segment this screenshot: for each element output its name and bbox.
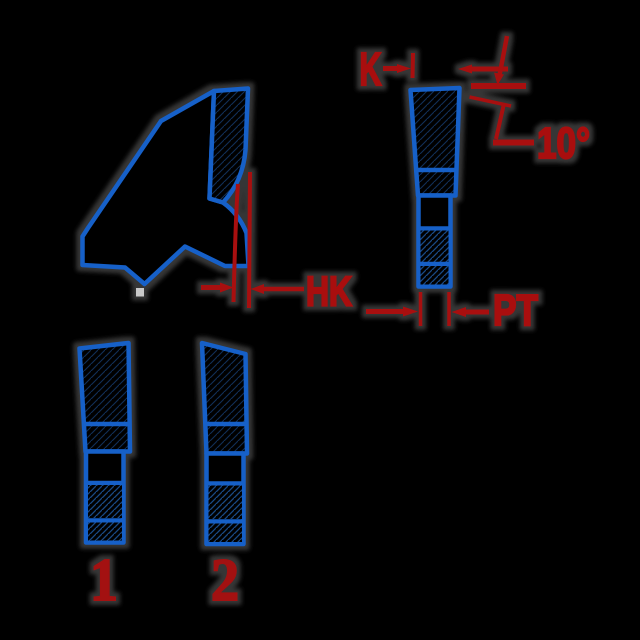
K dimension right arrow <box>458 65 472 74</box>
tooth 2 body <box>207 454 244 545</box>
tooth 1 front view: carbide tip <box>80 343 131 452</box>
front view blade body <box>419 196 451 287</box>
svg-text:2: 2 <box>211 547 239 613</box>
PT extension tick left <box>419 292 423 326</box>
side view carbide tip <box>210 89 249 203</box>
tooth 1 body divider 1 <box>86 481 124 486</box>
tooth 1 hatched box 1 <box>88 485 122 518</box>
red radial reference line B <box>249 172 250 308</box>
svg-text:10°: 10° <box>537 119 590 168</box>
side view tooth body outline <box>83 91 249 284</box>
white artifact square under gullet <box>136 288 144 297</box>
PT dimension left arrow <box>366 309 405 314</box>
tooth 2 body divider 1 <box>207 481 244 486</box>
PT dimension right arrow <box>452 307 467 317</box>
front view tip divider <box>414 168 456 173</box>
tooth 2 hatched box 1 <box>209 486 243 520</box>
tooth 2 front view: carbide tip <box>202 343 247 454</box>
HK dimension right arrow <box>251 284 265 294</box>
red radial reference line A <box>234 184 239 302</box>
HK dimension left arrow <box>201 285 227 290</box>
bevel leader line <box>499 36 507 78</box>
tooth 2 body divider 2 <box>207 519 244 524</box>
svg-text:1: 1 <box>90 547 118 613</box>
tooth 1 hatched box 2 <box>88 523 122 541</box>
body hatched box 1 <box>421 231 449 263</box>
front view tooth (right): carbide tip <box>411 88 460 196</box>
bevel wedge line lower <box>496 104 504 140</box>
bevel reference bar lower <box>493 140 534 146</box>
body hatched box 2 <box>421 266 449 285</box>
tooth 1 body divider 2 <box>86 518 124 523</box>
bevel reference bar upper <box>471 83 526 89</box>
tooth 1 tip divider <box>84 422 130 427</box>
body divider 1 <box>419 226 451 231</box>
svg-text:PT: PT <box>493 286 538 335</box>
svg-text:HK: HK <box>306 268 352 315</box>
K dimension left arrow <box>383 66 402 71</box>
tooth 2 hatched box 2 <box>209 524 243 543</box>
tooth 1 body <box>86 452 124 543</box>
svg-text:K: K <box>360 43 382 95</box>
K extension tick <box>411 53 416 78</box>
bevel wedge line upper <box>470 97 512 106</box>
tooth 2 tip divider <box>205 422 247 427</box>
body divider 2 <box>419 262 451 267</box>
PT extension tick right <box>447 292 451 326</box>
